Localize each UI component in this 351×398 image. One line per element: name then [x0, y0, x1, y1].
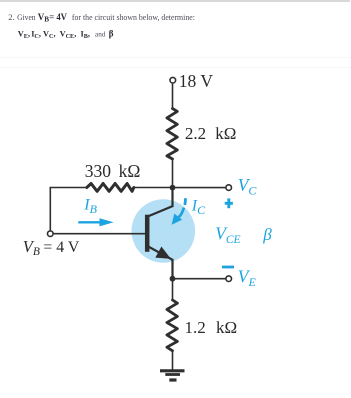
terminal VB	[48, 231, 54, 237]
svg-text:VC,: VC,	[43, 29, 56, 40]
svg-text:VB: VB	[23, 237, 40, 258]
emitter lead	[148, 246, 173, 278]
transistor Q1	[147, 188, 172, 279]
arrow IB head	[100, 218, 114, 226]
page top border	[0, 0, 350, 2]
wire node C to R330k	[134, 187, 173, 189]
wire R1.2k to ground	[172, 351, 174, 370]
svg-text:VB: VB	[38, 12, 50, 24]
svg-text:Given: Given	[17, 12, 36, 22]
resistor 2.2k zigzag	[167, 109, 177, 160]
svg-text:VCE: VCE	[215, 224, 240, 246]
svg-text:VCE,: VCE,	[60, 29, 77, 40]
wire 18V to R 2.2k	[172, 84, 174, 109]
svg-text:330: 330	[85, 161, 112, 181]
svg-text:= 4V: = 4V	[49, 12, 67, 22]
emitter arrowhead	[156, 247, 170, 258]
faint ruled line 2	[0, 67, 351, 69]
svg-text:VE,: VE,	[18, 29, 30, 40]
transistor highlight circle	[132, 199, 196, 263]
plus sign	[225, 198, 233, 208]
arrow IC head	[172, 214, 183, 225]
wire R330k to left corner	[50, 188, 87, 231]
svg-text:2.: 2.	[8, 12, 14, 22]
arrow IC curve	[179, 208, 184, 218]
svg-text:kΩ: kΩ	[119, 161, 141, 181]
wire node C to VC terminal	[173, 187, 226, 189]
svg-text:VC: VC	[238, 175, 258, 197]
svg-text:IC: IC	[191, 197, 206, 217]
minus sign	[222, 266, 234, 269]
junction node C	[170, 185, 176, 191]
wire node E to VE terminal	[173, 278, 226, 280]
base bar	[145, 215, 150, 252]
svg-text:2.2: 2.2	[185, 124, 206, 143]
faint ruled line 1	[0, 57, 351, 59]
svg-text:VE: VE	[238, 267, 257, 289]
svg-text:18 V: 18 V	[179, 71, 214, 91]
resistor 1.2k zigzag	[167, 300, 178, 351]
arrow IB	[78, 221, 99, 223]
arrow IC dash	[183, 198, 187, 205]
terminal 18V	[170, 77, 176, 83]
svg-text:= 4 V: = 4 V	[43, 239, 79, 256]
problem statement line 2	[18, 29, 114, 41]
svg-text:IC,: IC,	[31, 29, 41, 40]
svg-text:β: β	[262, 225, 272, 244]
wire base	[54, 233, 146, 235]
svg-text:and: and	[95, 30, 106, 38]
ground	[160, 371, 185, 380]
terminal VC	[226, 185, 232, 191]
svg-text:IB: IB	[83, 197, 97, 217]
terminal VE	[226, 276, 232, 282]
wire R2.2k to node C	[172, 159, 174, 189]
svg-text:for the circuit shown below, d: for the circuit shown below, determine:	[72, 12, 195, 22]
svg-text:IB,: IB,	[81, 29, 90, 40]
svg-text:kΩ: kΩ	[215, 124, 236, 143]
resistor 330k zigzag	[87, 184, 134, 192]
svg-text:kΩ: kΩ	[216, 318, 237, 337]
collector lead	[148, 188, 173, 217]
svg-text:β: β	[109, 29, 114, 39]
junction node E	[170, 276, 176, 282]
svg-text:1.2: 1.2	[185, 318, 206, 337]
wire node E to R1.2k	[172, 279, 174, 300]
